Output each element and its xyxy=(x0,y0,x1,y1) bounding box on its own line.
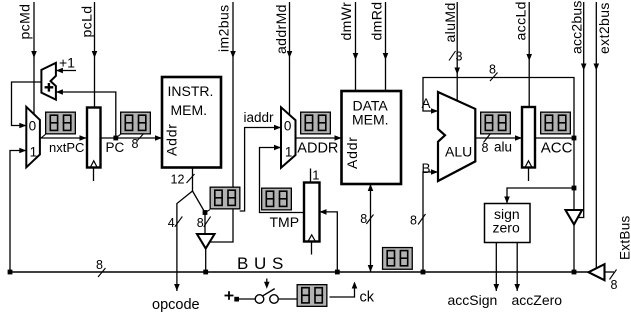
bus width marker 8 on immediate xyxy=(197,216,211,230)
junction dot ACC output xyxy=(572,136,577,141)
memory DATA MEM. xyxy=(342,91,402,184)
bus width marker 12 xyxy=(171,173,195,187)
svg-text:8: 8 xyxy=(489,63,496,77)
wire INSTR MEM instruction output 12 bits xyxy=(192,168,194,192)
memory INSTR.MEM. xyxy=(162,77,221,168)
display CK xyxy=(297,285,327,307)
display nxtPC xyxy=(46,112,76,134)
wire PC output to INSTR MEM xyxy=(101,135,163,141)
svg-text:iaddr: iaddr xyxy=(244,110,275,125)
svg-text:8: 8 xyxy=(611,278,618,292)
wire BUS to TMP input xyxy=(320,209,338,272)
svg-text:aluMd: aluMd xyxy=(442,2,458,42)
wire BUS to mux input 1 xyxy=(10,148,26,272)
svg-text:acc2bus: acc2bus xyxy=(569,0,585,54)
wire DATA MEM data port to BUS xyxy=(368,184,374,272)
svg-text:4: 4 xyxy=(168,216,175,230)
display IM connector xyxy=(205,210,210,213)
svg-text:A: A xyxy=(422,96,431,111)
wire ACC output down to tristate xyxy=(573,138,575,210)
svg-text:accSign: accSign xyxy=(448,292,498,308)
svg-text:0: 0 xyxy=(29,118,37,133)
wire pcLd control line xyxy=(92,2,98,107)
tristate buffer im2bus xyxy=(197,234,215,249)
display IM xyxy=(210,187,240,209)
switch ck xyxy=(255,289,278,304)
svg-text:accZero: accZero xyxy=(512,292,563,308)
unit sign zero xyxy=(485,204,531,243)
junction dot BUS left end xyxy=(8,270,13,275)
wire tap to sign zero unit xyxy=(504,188,574,204)
tristate buffer ExtBus xyxy=(589,264,605,280)
svg-text:dmRd: dmRd xyxy=(369,2,385,41)
svg-text:0: 0 xyxy=(284,119,292,134)
svg-text:Addr: Addr xyxy=(164,123,180,156)
switch actuate arrow xyxy=(264,279,270,289)
bus width marker 8 on ALU B input xyxy=(410,214,426,228)
svg-text:pcMd: pcMd xyxy=(17,4,33,40)
wire im2bus control line xyxy=(210,2,235,242)
wire iaddr to ADDR mux input 0 xyxy=(240,125,281,211)
svg-text:ALU: ALU xyxy=(445,143,472,159)
svg-text:1: 1 xyxy=(312,168,319,183)
bus width marker 8 on feedback xyxy=(489,63,498,82)
wire ACC feedback to ALU input A xyxy=(423,78,574,139)
wire TMP clock stub xyxy=(311,242,313,255)
adder +1 xyxy=(41,63,56,100)
wire dmWr control line xyxy=(353,2,359,92)
svg-text:accLd: accLd xyxy=(513,1,529,40)
register ACC xyxy=(522,107,535,168)
svg-text:ck: ck xyxy=(360,290,375,306)
display nxtPC connector xyxy=(41,134,46,138)
wire im tristate output to BUS xyxy=(205,249,207,273)
bus width marker 4 on opcode xyxy=(168,216,183,230)
wire dmRd control line xyxy=(383,2,389,92)
mux ADDR xyxy=(281,107,296,168)
bus width marker 8 on BUS xyxy=(96,258,106,277)
display ADDR xyxy=(301,112,331,134)
svg-text:8: 8 xyxy=(482,141,489,155)
junction dot PC output xyxy=(113,136,118,141)
svg-text:12: 12 xyxy=(171,173,185,187)
wire addrMd control line xyxy=(287,2,293,114)
wire ADDR mux output to DATA MEM xyxy=(296,135,342,141)
svg-text:ACC: ACC xyxy=(541,140,573,157)
wire ck display to ck arrow xyxy=(330,282,358,298)
register TMP xyxy=(304,183,320,242)
wire PC output feedback to adder xyxy=(56,89,116,138)
wire acc tristate output to BUS xyxy=(573,225,575,273)
tristate buffer acc2bus xyxy=(566,210,583,225)
wire terminal to switch xyxy=(239,298,255,300)
display ALU output xyxy=(481,112,511,134)
svg-text:INSTR.: INSTR. xyxy=(168,83,214,99)
wire BUS to ALU input B xyxy=(423,169,438,272)
svg-text:ExtBus: ExtBus xyxy=(618,215,631,260)
bus width marker 8 on DATA MEM port xyxy=(360,212,373,226)
wire PC clock stub xyxy=(93,168,95,182)
svg-text:addrMd: addrMd xyxy=(273,4,289,54)
svg-text:1: 1 xyxy=(30,144,38,159)
svg-text:PC: PC xyxy=(106,140,125,155)
wire ExtBus stub xyxy=(605,271,615,273)
wire accSign output xyxy=(494,243,500,292)
wire ext2bus control line xyxy=(594,2,600,269)
wire nxtPC mux output to PC xyxy=(40,135,87,141)
svg-text:8: 8 xyxy=(360,212,367,226)
svg-text:1: 1 xyxy=(285,145,293,160)
display TMP xyxy=(262,188,292,210)
junction dot acc tristate on BUS xyxy=(572,270,577,275)
svg-text:B U S: B U S xyxy=(237,254,284,273)
junction dot sign zero tap xyxy=(572,186,577,191)
wire pcMd control line xyxy=(31,2,37,114)
wire BUS xyxy=(10,271,589,273)
svg-text:nxtPC: nxtPC xyxy=(49,140,84,155)
junction dot ALU B on BUS xyxy=(421,270,426,275)
wire accZero output xyxy=(514,243,520,292)
wire +1 constant stub into adder xyxy=(56,68,76,74)
svg-text:MEM.: MEM. xyxy=(352,112,389,128)
wire accLd control line xyxy=(526,2,532,107)
svg-text:zero: zero xyxy=(493,220,520,236)
svg-text:ext2bus: ext2bus xyxy=(596,2,612,54)
svg-text:im2bus: im2bus xyxy=(216,4,232,52)
bus width marker 3 on aluMd xyxy=(449,50,463,64)
bus width marker 8 on PC output xyxy=(132,134,144,151)
display ACC xyxy=(541,112,571,134)
wire TMP enable constant 1 stub xyxy=(311,168,320,183)
alu ALU xyxy=(438,92,475,181)
svg-text:pcLd: pcLd xyxy=(79,6,95,38)
svg-text:8: 8 xyxy=(197,216,204,230)
svg-text:dmWr: dmWr xyxy=(338,2,354,41)
svg-text:MEM.: MEM. xyxy=(171,102,208,118)
clock source plus terminal xyxy=(225,291,240,301)
junction dot TMP input on BUS xyxy=(335,270,340,275)
bus width marker 8 alu xyxy=(482,134,513,156)
svg-text:+1: +1 xyxy=(59,55,75,71)
svg-text:alu: alu xyxy=(494,140,512,155)
svg-text:opcode: opcode xyxy=(152,297,200,313)
display PC xyxy=(121,112,151,134)
wire TMP output to ADDR mux input 1 xyxy=(260,145,305,213)
svg-text:ADDR: ADDR xyxy=(297,141,338,157)
svg-text:8: 8 xyxy=(132,137,139,151)
wire acc2bus control line xyxy=(578,2,587,218)
wire switch to ck display xyxy=(278,298,296,300)
svg-text:8: 8 xyxy=(410,214,417,228)
svg-text:TMP: TMP xyxy=(270,214,300,230)
wire opcode branch xyxy=(174,191,192,291)
mux nxtPC xyxy=(26,107,40,168)
bus width marker 8 on ExtBus xyxy=(610,270,618,293)
display PC connector xyxy=(116,134,121,138)
display BUS monitor xyxy=(383,248,413,270)
register PC xyxy=(87,108,101,168)
svg-text:Addr: Addr xyxy=(344,136,360,169)
svg-text:B: B xyxy=(422,161,431,176)
wire adder output to mux input 0 xyxy=(12,82,42,128)
wire ALU output to ACC xyxy=(475,135,522,141)
wire ACC output xyxy=(535,137,574,139)
junction dot im tristate on BUS xyxy=(203,270,208,275)
wire aluMd control line xyxy=(454,2,460,101)
svg-text:8: 8 xyxy=(96,258,103,272)
wire immediate branch xyxy=(193,191,206,234)
svg-text:3: 3 xyxy=(456,50,463,64)
junction dot immediate branch xyxy=(203,210,208,215)
wire ACC clock stub xyxy=(528,168,530,182)
